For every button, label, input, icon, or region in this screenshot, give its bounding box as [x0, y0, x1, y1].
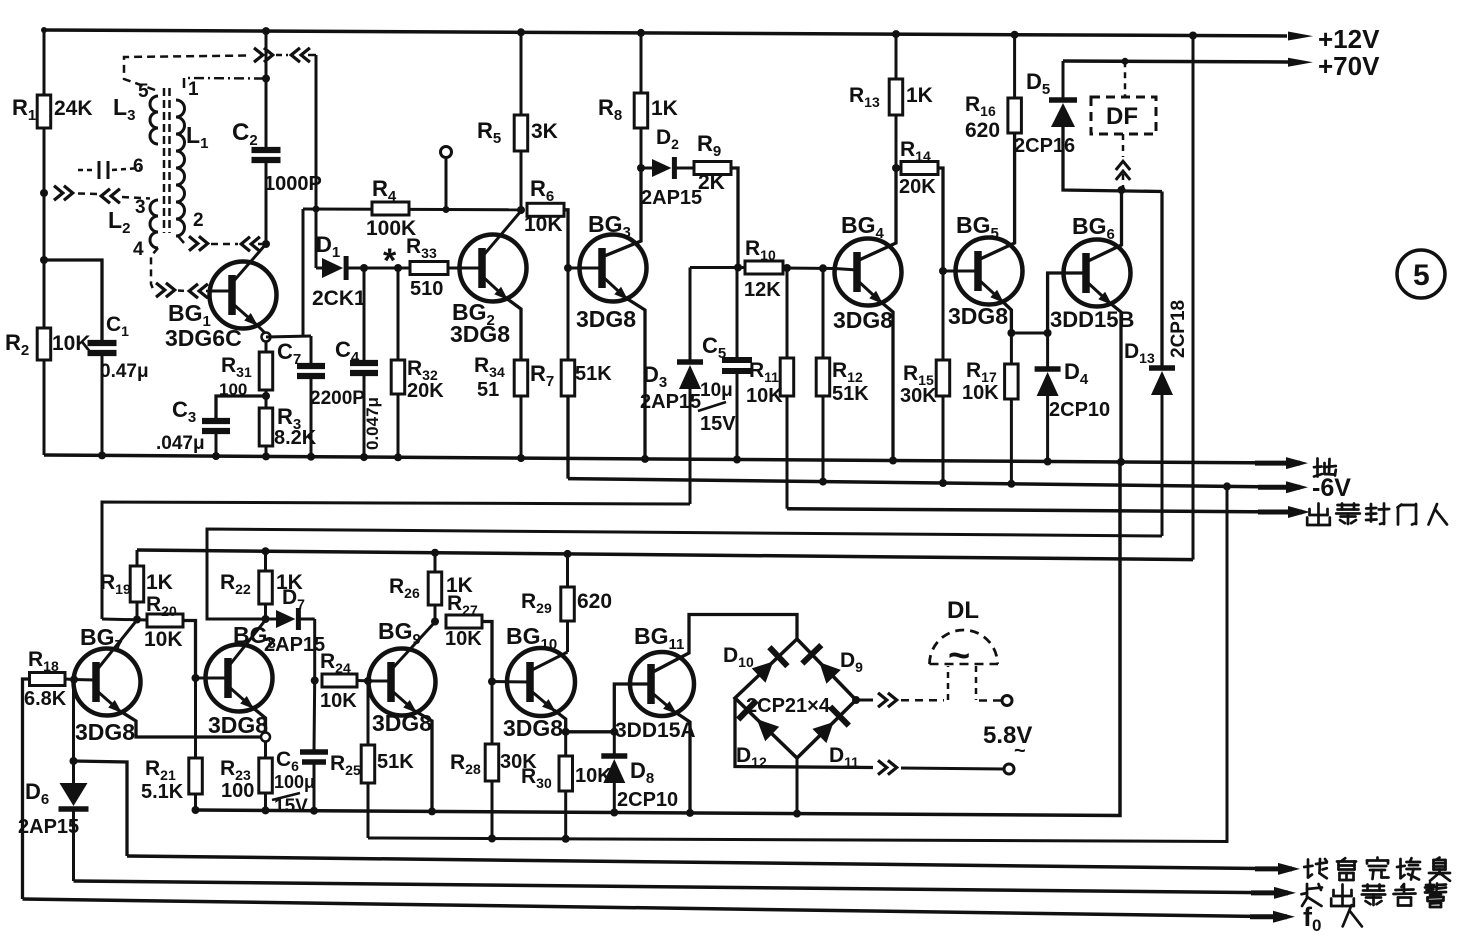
wire BG4 emitter: [857, 280, 883, 304]
wire C6 branch: [313, 681, 317, 752]
resistor R31: [259, 352, 273, 390]
wire bridge left output: [735, 698, 873, 768]
wire D7 to R24: [313, 619, 316, 681]
diode D3: [689, 268, 692, 361]
transistor BG1: [210, 262, 277, 329]
capacitor C3: [202, 418, 230, 424]
svg-text:0.47μ: 0.47μ: [100, 361, 149, 382]
wire BG3 collector: [602, 168, 641, 257]
wire R25 branch: [367, 681, 370, 745]
svg-text:2CP18: 2CP18: [1168, 300, 1189, 358]
resistor R9: [694, 162, 731, 175]
svg-text:3DD15B: 3DD15B: [1050, 307, 1134, 332]
resistor R8: [640, 128, 643, 168]
wire bridge right output: [856, 699, 873, 702]
node BG1 emitter open circle: [262, 333, 271, 342]
diode D6: [72, 761, 75, 783]
diode D4: [1046, 333, 1049, 367]
wire C3 branch: [216, 396, 266, 419]
svg-text:6: 6: [133, 156, 144, 177]
wire base to R21: [194, 678, 197, 758]
svg-text:0.047μ: 0.047μ: [363, 397, 382, 450]
node BG7 collector junction: [133, 616, 141, 624]
wire C2 branch from top rail: [265, 31, 268, 148]
label chupiaofengmenru: [1317, 504, 1320, 526]
node D2 junction: [637, 164, 645, 172]
transistor BG3: [580, 235, 647, 302]
diode D5: [1049, 97, 1077, 103]
svg-text:3DG8: 3DG8: [208, 712, 268, 738]
resistor R30: [559, 756, 573, 791]
svg-text:.047μ: .047μ: [156, 433, 205, 454]
node R24 junction: [311, 677, 319, 685]
svg-text:3DG8: 3DG8: [948, 303, 1008, 329]
resistor R7: [561, 360, 575, 396]
wire collector junction link: [102, 619, 148, 620]
wire BG4 collector: [857, 168, 896, 261]
svg-text:2200P: 2200P: [310, 388, 365, 409]
node top-rail left corner: [41, 27, 47, 33]
wire R18 to f0 line: [23, 679, 30, 899]
wire R15 to -6V: [942, 396, 945, 483]
svg-text:5.1K: 5.1K: [141, 781, 184, 803]
node bridge right vertex: [852, 696, 860, 704]
wire R4 line: [303, 208, 520, 212]
wire BG7 emitter: [96, 690, 122, 713]
wire R33 to BG2 base: [448, 267, 460, 270]
wire R34 to ground: [520, 396, 523, 458]
terminal arrow changchupiao: [1251, 890, 1288, 895]
wire DF dashed top: [1124, 61, 1127, 97]
wire R12 to -6V: [822, 396, 825, 482]
capacitor C4: [350, 360, 378, 366]
svg-text:2AP15: 2AP15: [641, 187, 702, 209]
wire BG5 emitter: [978, 279, 1004, 303]
svg-text:2CP21×4: 2CP21×4: [746, 695, 831, 717]
wire BG7 collector: [96, 620, 137, 671]
wire +12V top rail: [44, 30, 1287, 36]
speaker DL legs: [947, 666, 950, 700]
wire R23 to rail: [264, 793, 267, 810]
node R31 bottom: [262, 392, 270, 400]
svg-text:10K: 10K: [144, 628, 183, 651]
wire antenna input arrows: [54, 186, 63, 200]
resistor R16: [1008, 98, 1022, 133]
node R14 junction: [892, 164, 900, 172]
svg-text:15V: 15V: [274, 796, 308, 817]
svg-text:2K: 2K: [698, 171, 725, 194]
wire R20 to BG8 base: [183, 621, 196, 679]
capacitor C2: [252, 147, 281, 153]
svg-text:10K: 10K: [962, 382, 999, 404]
svg-text:10K: 10K: [52, 332, 91, 355]
svg-text:2CP16: 2CP16: [1014, 135, 1075, 157]
pin4 dashed link to BG1 base: [151, 248, 158, 289]
terminal arrow -6V: [1258, 485, 1300, 490]
wire BG9 collector: [391, 622, 435, 670]
resistor R6: [527, 203, 564, 216]
wire C7 to ground: [310, 378, 313, 457]
resistor R32: [391, 360, 405, 394]
terminal arrow ground: [1255, 461, 1300, 466]
label slash c5: [698, 402, 726, 411]
node BG1 collector: [262, 240, 270, 248]
svg-text:51K: 51K: [377, 751, 414, 773]
wire BG11 base link: [566, 730, 615, 733]
label zhaoshouwanjiechou: [1307, 860, 1310, 878]
node R12 junction: [819, 264, 827, 272]
svg-text:20K: 20K: [407, 380, 444, 402]
wire BG10 collector: [530, 652, 568, 671]
wire C5 branch: [736, 268, 739, 359]
wire zhaoshou line: [127, 856, 1277, 869]
wire R11 branch: [786, 268, 789, 358]
resistor R21: [189, 758, 203, 794]
svg-text:30K: 30K: [900, 385, 937, 407]
wire BG9 emitter: [391, 690, 417, 713]
svg-text:DF: DF: [1106, 103, 1138, 130]
resistor R5: [514, 115, 528, 151]
wire R6 to BG3 base: [564, 210, 568, 268]
svg-text:20K: 20K: [899, 176, 936, 198]
diode D8: [613, 732, 616, 754]
resistor R33: [410, 262, 448, 275]
resistor R34: [514, 360, 528, 396]
svg-text:3DG6C: 3DG6C: [165, 325, 242, 351]
node R10 left junction: [734, 264, 742, 272]
svg-text:2AP15: 2AP15: [18, 816, 79, 838]
node BG10 base junction: [488, 678, 496, 686]
node BG7 base: [70, 676, 78, 684]
resistor R24: [322, 674, 357, 687]
node C4 junction: [360, 264, 368, 272]
resistor R2: [37, 328, 51, 360]
svg-text:1000P: 1000P: [264, 173, 322, 195]
wire BG5 collector: [978, 133, 1015, 260]
svg-text:10μ: 10μ: [700, 380, 733, 401]
wire R11 to chupiao-right line: [786, 396, 789, 509]
svg-text:51K: 51K: [832, 383, 869, 405]
wire BG11 emitter: [651, 692, 677, 714]
resistor R18: [30, 673, 66, 686]
wire BG3 emitter: [602, 276, 628, 300]
wire D6 to alarm line: [72, 809, 75, 881]
node BG5 emitter junction: [1007, 329, 1015, 337]
wire C4 to ground: [363, 375, 366, 457]
wire D4 to ground: [1046, 396, 1049, 462]
resistor R17: [1005, 364, 1019, 399]
svg-text:~: ~: [948, 635, 970, 677]
wire +70V to D5: [1062, 61, 1065, 98]
wire C6 to rail: [313, 762, 316, 811]
transistor BG5: [956, 238, 1023, 305]
capacitor C5: [722, 357, 752, 363]
svg-text:2CP10: 2CP10: [617, 789, 678, 811]
wire R15 branch: [942, 271, 945, 360]
wire ground rail: [44, 455, 1283, 463]
resistor R4: [372, 202, 409, 215]
node BG8 collector junction: [262, 615, 270, 623]
wire BG1 collector: [232, 244, 266, 283]
resistor R11: [780, 358, 794, 396]
inductor L3: [150, 96, 158, 144]
svg-text:620: 620: [965, 119, 1000, 142]
wire R21 to rail: [194, 794, 197, 810]
label changchupiaogaojing: [1306, 884, 1309, 898]
svg-text:1K: 1K: [906, 84, 933, 107]
node R27 junction: [431, 618, 439, 626]
resistor R1: [37, 95, 51, 128]
node BG5 base junction: [939, 267, 947, 275]
wire BG1 emitter: [232, 303, 258, 326]
node D6 top junction: [70, 757, 78, 765]
svg-text:3: 3: [135, 197, 146, 218]
node R32 junction: [394, 264, 402, 272]
diode D2: [641, 167, 652, 170]
terminal circle lower output: [1004, 764, 1014, 774]
svg-text:2CK1: 2CK1: [312, 287, 366, 310]
wire C7 branch: [310, 336, 313, 364]
resistor R23: [259, 758, 273, 793]
node antenna junction: [40, 189, 48, 197]
svg-text:3K: 3K: [531, 120, 558, 143]
wire R5 to junction: [520, 151, 523, 210]
wire emitter to R30: [564, 732, 567, 756]
capacitor C1: [88, 340, 117, 346]
transistor BG11: [630, 652, 694, 716]
diode D11: [812, 722, 833, 743]
wire C3 to ground: [215, 433, 218, 456]
wire R31-R3: [265, 390, 268, 408]
wire D13 branch: [1160, 192, 1163, 367]
node BG9 base junction: [364, 677, 372, 685]
node BG8 base: [192, 674, 200, 682]
diode D1: [316, 267, 322, 270]
resistor R10: [745, 261, 783, 274]
resistor R12: [816, 358, 830, 396]
svg-text:51K: 51K: [575, 363, 612, 385]
node D8 junction: [610, 728, 618, 736]
wire R7 branch: [567, 268, 570, 360]
wire bottom ground rail: [196, 462, 1121, 816]
svg-text:510: 510: [410, 278, 443, 300]
transistor BG4: [835, 239, 902, 306]
wire C5 to ground: [736, 373, 739, 460]
wire +70V rail: [1063, 61, 1288, 62]
wire BG6 base link: [1048, 273, 1086, 333]
transistor BG7: [74, 649, 141, 716]
wire f0 line: [23, 899, 1273, 917]
terminal arrow zhaoshou: [1255, 866, 1292, 871]
wire D13 to lower section: [1161, 393, 1164, 536]
node BG8 emitter open circle: [261, 733, 270, 742]
wire feedback arrows to D1 branch: [254, 48, 263, 62]
node D4 junction: [1044, 329, 1052, 337]
wire BG6 emitter: [1086, 281, 1112, 305]
svg-text:10K: 10K: [445, 628, 482, 650]
label slash c6: [272, 793, 300, 800]
svg-text:*: *: [383, 242, 397, 280]
resistor R19: [136, 550, 139, 566]
transformer core: [163, 88, 166, 233]
svg-text:3DG8: 3DG8: [833, 307, 893, 333]
wire BG3 output node line: [690, 266, 745, 269]
diode D7: [266, 618, 277, 621]
svg-text:4: 4: [133, 239, 144, 260]
wire BG6 collector: [1086, 190, 1122, 262]
wire DF dashed bottom with chevrons: [1122, 134, 1125, 157]
svg-text:12K: 12K: [744, 279, 781, 301]
diode D9: [819, 662, 840, 684]
resistor R22: [262, 547, 270, 555]
resistor R20: [147, 614, 183, 627]
wire C4 branch: [363, 268, 366, 361]
svg-text:10K: 10K: [320, 690, 357, 712]
wire R5 from rail: [520, 32, 523, 115]
wire R32 to ground: [397, 394, 400, 457]
resistor R14: [901, 162, 938, 175]
bridge rectifier outline: [735, 639, 856, 758]
wire R24 to BG9 base: [357, 679, 374, 683]
node BG6 emitter ground: [1117, 458, 1125, 466]
svg-text:~: ~: [1014, 740, 1026, 762]
terminal arrow chupiao: [1258, 510, 1302, 515]
diode D13: [1149, 365, 1175, 371]
svg-text:DL: DL: [947, 597, 979, 624]
terminal arrow +12V: [1288, 32, 1313, 41]
svg-text:5: 5: [1413, 259, 1430, 292]
svg-text:24K: 24K: [54, 97, 93, 120]
resistor R25: [361, 745, 375, 783]
svg-text:1: 1: [188, 79, 199, 100]
wire R25 to -6V feed: [367, 783, 370, 838]
diode D12: [757, 719, 780, 741]
node D1 feedback crossing: [313, 206, 320, 213]
transistor BG2: [460, 235, 527, 302]
circle figure number 5: [1397, 250, 1445, 298]
terminal stub with circle: [441, 147, 452, 158]
node D5 line junction: [1118, 186, 1126, 194]
node R11 junction: [783, 264, 791, 272]
wire R7 to -6V: [566, 396, 569, 479]
wire D8 to rail: [613, 782, 616, 813]
inductor L1: [176, 100, 185, 236]
wire R28 to -6V feed: [491, 781, 494, 839]
svg-text:3DG8: 3DG8: [503, 715, 563, 741]
capacitor C7: [297, 363, 325, 369]
wire C2 to BG1 collector node: [265, 162, 268, 244]
svg-text:100μ: 100μ: [274, 772, 315, 792]
svg-text:100: 100: [221, 780, 254, 802]
wire BG10 emitter: [530, 690, 556, 712]
node -6V drop junction: [1223, 482, 1231, 490]
terminal arrow +70V: [1288, 58, 1313, 67]
wire R32 branch: [397, 268, 400, 360]
svg-text:3DG8: 3DG8: [75, 719, 135, 745]
wire C1 branch: [44, 260, 102, 341]
transistor BG10: [507, 648, 575, 716]
terminal circle upper output: [1002, 696, 1012, 706]
wire -6V bottom feed: [368, 486, 1227, 841]
node bridge bottom: [796, 758, 799, 814]
resistor R27: [446, 615, 482, 628]
terminal arrow f0: [1250, 914, 1287, 919]
wire C1 to ground: [101, 355, 104, 455]
wire BG11 collector: [651, 615, 797, 674]
pin2 dashed link to BG1 collector node: [178, 236, 184, 243]
pin1 dash-dot link to BG1 collector: [184, 78, 264, 88]
svg-text:51: 51: [477, 379, 499, 401]
resistor R29: [564, 550, 572, 558]
wire +12V feed line: [137, 550, 1193, 560]
wire emitter to R23: [264, 742, 267, 759]
svg-text:2AP15: 2AP15: [640, 391, 701, 413]
wire emitter node line: [1011, 332, 1047, 335]
wire BG8 collector: [228, 620, 266, 667]
wire emitter to R31: [265, 341, 268, 352]
crystal gap symbol: [98, 161, 101, 179]
box DF dashed: [1091, 97, 1156, 134]
svg-text:3DG8: 3DG8: [372, 710, 432, 736]
wire BG2 emitter: [482, 276, 508, 300]
wire BG7 base to D6: [72, 680, 75, 762]
svg-text:6.8K: 6.8K: [24, 688, 67, 710]
wire D13 horizontal line: [207, 529, 1162, 619]
svg-text:2CP10: 2CP10: [1049, 399, 1110, 421]
wire R14 to BG5 base: [938, 168, 943, 271]
wire R30 to -6V feed: [564, 791, 567, 839]
wire BG8 emitter: [228, 686, 254, 709]
wire D5 to junction line: [1063, 127, 1162, 192]
resistor R28: [485, 744, 499, 781]
speaker DL dome: [930, 630, 998, 664]
wire chupiao right line: [787, 509, 1283, 512]
svg-text:1K: 1K: [146, 571, 173, 594]
node R4 right junction: [517, 206, 525, 214]
wire emitter sense line: [74, 761, 128, 856]
svg-text:15V: 15V: [700, 413, 736, 435]
svg-text:3DG8: 3DG8: [450, 321, 510, 347]
wire up to R4 line: [302, 209, 305, 336]
wire D1 anode branch: [315, 55, 318, 268]
wire R3 to ground: [265, 446, 268, 456]
node C1 branch junction: [40, 256, 48, 264]
pin5 dashed link to feedback: [124, 56, 250, 91]
svg-text:10K: 10K: [524, 213, 563, 236]
node BG3 base junction: [564, 264, 572, 272]
svg-text:+70V: +70V: [1318, 51, 1380, 81]
label ru: [1343, 905, 1352, 926]
wire changchupiao line: [74, 881, 1274, 893]
capacitor C6: [300, 749, 328, 755]
svg-text:10K: 10K: [746, 385, 783, 407]
resistor R3: [259, 408, 273, 446]
wire +12V drop vertical: [1192, 36, 1195, 560]
svg-text:+12V: +12V: [1318, 24, 1380, 54]
node BG10 emitter junction: [562, 728, 570, 736]
diode D10: [752, 661, 774, 682]
wire R27 to BG10 base: [482, 622, 492, 682]
wire R17 to -6V: [1010, 399, 1013, 484]
wire D3 to chupiao-left line: [689, 389, 692, 504]
svg-text:-6V: -6V: [1312, 474, 1351, 502]
wire R17 branch: [1010, 333, 1013, 364]
wire R12 branch: [822, 268, 825, 358]
wire R9 to node line: [731, 168, 738, 267]
transistor BG6: [1064, 240, 1131, 307]
resistor R26: [431, 549, 439, 557]
wire left vertical: [43, 30, 46, 455]
